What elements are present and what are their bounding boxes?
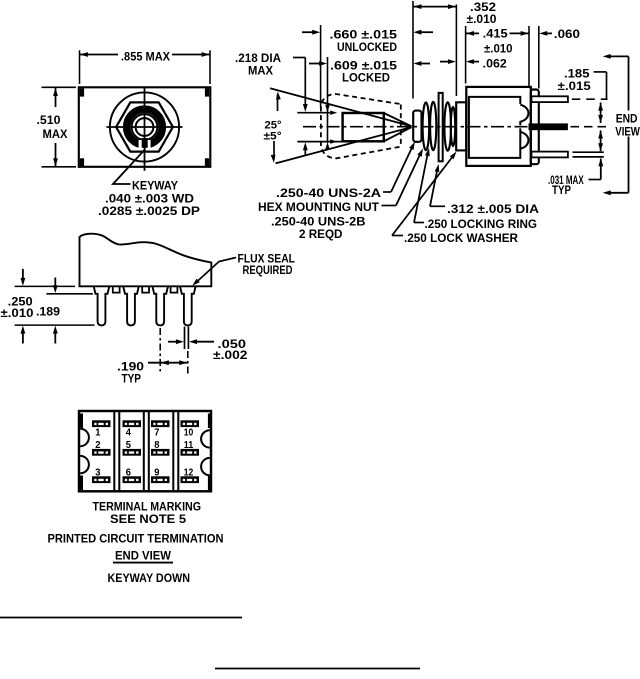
svg-text:±.010: ±.010: [467, 12, 497, 26]
keyway notch: [139, 140, 151, 149]
svg-text:.060: .060: [554, 27, 580, 41]
svg-text:END: END: [616, 112, 638, 126]
svg-text:7: 7: [154, 427, 160, 438]
svg-text:8: 8: [154, 440, 160, 451]
column separator lines: [113, 411, 115, 491]
svg-text:.510: .510: [37, 113, 61, 127]
toggle lever dashed unlocked position: [321, 94, 400, 158]
terminal pin top: [532, 96, 568, 102]
end view direction arrows: [610, 55, 629, 57]
front view thick locking ring: [127, 109, 163, 145]
extension line body left: [465, 26, 467, 84]
svg-text:.415: .415: [483, 27, 508, 41]
pin top centerline dashes: [572, 98, 608, 100]
toggle lever taper to pivot: [384, 113, 412, 126]
svg-text:±5°: ±5°: [264, 131, 282, 143]
extension line pivot (.352/.660/.609 right): [412, 1, 414, 99]
bottom rule middle: [215, 668, 420, 670]
dimension .510 MAX: [42, 86, 77, 88]
pin3 centerline: [159, 328, 161, 374]
hex mounting nut 1: [423, 102, 430, 150]
lock washer wave 1: [444, 102, 451, 150]
svg-text:.189: .189: [36, 305, 60, 319]
svg-text:5: 5: [126, 440, 132, 451]
dimension 25 degree arrows: [277, 95, 279, 112]
svg-text:KEYWAY: KEYWAY: [132, 179, 178, 193]
stub terminals: [113, 286, 120, 292]
keyway leader: [113, 149, 145, 184]
dimension .062: [440, 61, 450, 63]
dimension .050 arrows: [168, 341, 177, 343]
toggle lever solid body: [343, 113, 384, 141]
svg-text:4: 4: [126, 427, 132, 438]
svg-text:UNLOCKED: UNLOCKED: [337, 40, 397, 54]
svg-text:LOCKED: LOCKED: [342, 71, 390, 85]
dimension .250 arrows: [22, 269, 24, 279]
svg-text:VIEW: VIEW: [615, 125, 640, 139]
lever diameter extension lines: [297, 112, 330, 114]
terminal marking outer rectangle: [79, 411, 211, 491]
front view toggle circle: [136, 118, 154, 136]
flat washer plate: [456, 102, 466, 150]
bushing nut face: [413, 111, 421, 142]
pin bottom extension lines: [573, 151, 604, 153]
locking ring .312 dia: [439, 93, 443, 161]
svg-text:11: 11: [184, 440, 194, 451]
svg-text:12: 12: [184, 468, 194, 479]
switch body outer case: [466, 87, 531, 166]
svg-text:.250-40 UNS-2A: .250-40 UNS-2A: [276, 186, 381, 200]
dimension .855 MAX: [79, 50, 81, 84]
extension line unlocked lever tip: [320, 25, 322, 108]
svg-text:KEYWAY DOWN: KEYWAY DOWN: [108, 571, 191, 585]
leader .250-40 UNS-2A: [383, 191, 391, 193]
svg-text:.855 MAX: .855 MAX: [121, 50, 170, 64]
terminal pins: [94, 286, 110, 325]
dimension .250 extension lines: [15, 285, 75, 287]
svg-text:TYP: TYP: [122, 372, 142, 386]
dimension .031 MAX TYP: [600, 159, 602, 180]
switch body side outline with flux seal top: [80, 234, 212, 287]
svg-text:3: 3: [95, 468, 101, 479]
svg-text:TYP: TYP: [552, 183, 571, 197]
terminal marking edge bars: [80, 414, 83, 429]
keyway semicircles right: [201, 430, 210, 447]
svg-text:±.015: ±.015: [558, 79, 591, 93]
svg-text:REQUIRED: REQUIRED: [243, 263, 293, 277]
leader .312 ring: [430, 205, 445, 207]
dimension .352: [413, 6, 456, 8]
dimension .415: [466, 32, 479, 34]
front view bushing circle: [132, 114, 158, 140]
leader locking nut second: [414, 222, 424, 224]
pin spacing dimension arrows: [600, 103, 602, 124]
svg-text:±.010: ±.010: [484, 42, 513, 56]
svg-text:±.010: ±.010: [1, 306, 34, 320]
flux seal scallop bottom: [520, 128, 528, 148]
end plate: [531, 90, 539, 165]
svg-text:END VIEW: END VIEW: [115, 549, 172, 563]
leader lock washer: [392, 235, 403, 237]
terminal bars: [92, 420, 111, 427]
svg-text:.312 ±.005 DIA: .312 ±.005 DIA: [447, 202, 539, 216]
keyway semicircles left: [80, 429, 89, 446]
terminal pin bottom: [532, 152, 568, 158]
dimension .190 TYP: [148, 362, 188, 364]
svg-text:SEE NOTE 5: SEE NOTE 5: [110, 512, 186, 526]
lock washer wave 2: [451, 107, 455, 146]
svg-text:.250 LOCK WASHER: .250 LOCK WASHER: [404, 231, 518, 245]
hex mounting nut 2: [430, 102, 436, 150]
svg-text:2: 2: [95, 440, 101, 451]
front view crosshair centerlines: [107, 126, 183, 128]
dimension .189 arrows: [54, 278, 56, 288]
svg-text:HEX MOUNTING NUT: HEX MOUNTING NUT: [258, 200, 380, 214]
front view outer circle: [110, 92, 179, 161]
locked tip arrows on lever edges: [330, 111, 337, 115]
flux seal leader: [196, 258, 237, 284]
front view hex nut outline: [116, 102, 173, 151]
flux seal scallop top: [520, 105, 528, 126]
lever diameter inner arrows: [325, 105, 330, 113]
svg-text:6: 6: [126, 468, 132, 479]
pin4 centerline: [187, 351, 189, 374]
toggle swing envelope upper line: [270, 88, 412, 126]
keyway tooth: [142, 138, 148, 148]
leader hex mounting nut: [382, 205, 397, 207]
dimension .218 DIA leader+arrows: [293, 57, 305, 59]
svg-text:.250 LOCKING RING: .250 LOCKING RING: [425, 217, 538, 231]
svg-text:MAX: MAX: [43, 127, 68, 141]
toggle swing envelope lower line: [276, 127, 412, 163]
dimension .060: [546, 32, 553, 34]
svg-text:2 REQD: 2 REQD: [299, 227, 343, 241]
svg-text:MAX: MAX: [248, 64, 273, 78]
svg-text:.0285 ±.0025 DP: .0285 ±.0025 DP: [98, 204, 200, 218]
svg-text:9: 9: [154, 468, 160, 479]
svg-text:±.002: ±.002: [213, 348, 248, 362]
extension line locked lever tip: [327, 57, 329, 143]
terminal pin middle (solder lug): [529, 123, 568, 130]
dimension .660 UNLOCKED: [302, 31, 314, 33]
svg-text:10: 10: [184, 427, 194, 438]
assembly centerline: [303, 126, 530, 128]
front view: switch face plate rectangle: [79, 87, 211, 167]
bottom rule left: [0, 617, 242, 619]
extension line body right: [528, 26, 530, 86]
svg-text:.062: .062: [483, 56, 507, 70]
svg-text:PRINTED CIRCUIT TERMINATION: PRINTED CIRCUIT TERMINATION: [48, 532, 224, 546]
extension line end plate right: [538, 26, 540, 89]
toggle lever dashed right face: [400, 105, 402, 147]
extension line washer left (.352 right/.062 left): [455, 5, 457, 97]
front view corner marks: [80, 88, 84, 96]
svg-text:1: 1: [95, 427, 101, 438]
dimension .609 LOCKED: [309, 63, 320, 65]
dimension .050 extension lines: [184, 327, 186, 350]
switch body inner case with flux scallops: [469, 97, 520, 158]
